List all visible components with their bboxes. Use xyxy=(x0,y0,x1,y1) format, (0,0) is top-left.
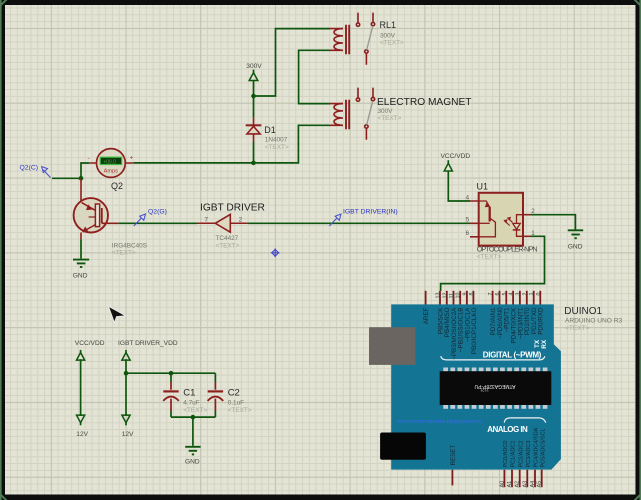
wire rail to ground xyxy=(192,417,194,446)
wire optocoupler pin2 to ground xyxy=(531,215,576,230)
label Q2(C) wire xyxy=(20,164,51,177)
arduino pin labels bottom xyxy=(450,427,547,467)
ground right of optocoupler xyxy=(568,230,583,238)
capacitor C1 4.7uF xyxy=(163,382,179,411)
relay RL1 xyxy=(330,13,375,65)
arduino power jack xyxy=(380,433,426,460)
svg-text:D1: D1 xyxy=(264,125,276,135)
wire D1 bottom to rail xyxy=(253,142,255,163)
svg-text:RX: RX xyxy=(541,339,548,349)
svg-text:<TEXT>: <TEXT> xyxy=(228,407,252,414)
diode D1 1N4007 xyxy=(246,118,262,142)
wire RL1 coil bottom to EM coil top xyxy=(299,50,330,103)
wire IGBT emitter to ground xyxy=(80,239,82,258)
svg-text:7: 7 xyxy=(205,216,209,223)
svg-text:8: 8 xyxy=(469,293,475,296)
svg-text:RESET: RESET xyxy=(450,445,457,466)
svg-text:<TEXT>: <TEXT> xyxy=(378,115,402,122)
svg-text:1: 1 xyxy=(531,230,535,237)
svg-text:Q2: Q2 xyxy=(111,181,123,191)
svg-text:TC4427: TC4427 xyxy=(216,235,239,242)
svg-text:ELECTRO MAGNET: ELECTRO MAGNET xyxy=(377,97,472,108)
svg-text:microcontrolandos.blogspot.com: microcontrolandos.blogspot.com xyxy=(398,419,482,425)
svg-text:A0: A0 xyxy=(499,481,505,488)
svg-text:4.7uF: 4.7uF xyxy=(183,400,199,407)
svg-text:2: 2 xyxy=(239,216,243,223)
arduino pin labels top xyxy=(423,307,548,360)
svg-text:OPTOCOUPLER-NPN: OPTOCOUPLER-NPN xyxy=(477,244,538,253)
svg-text:IGBT DRIVER_VDD: IGBT DRIVER_VDD xyxy=(118,340,178,347)
wire ammeter left to node xyxy=(52,163,89,178)
label Q2(G) wire xyxy=(134,209,167,226)
svg-text:A4: A4 xyxy=(530,481,536,488)
arduino board body xyxy=(391,304,561,469)
junction node cap bottom rail xyxy=(191,415,196,420)
junction node Q2 collector xyxy=(79,176,84,181)
svg-text:Amps: Amps xyxy=(104,169,119,175)
transistor IGBT IRG4BC40S xyxy=(74,179,119,240)
junction node VDD arrow xyxy=(124,371,129,376)
svg-text:<TEXT>: <TEXT> xyxy=(380,40,404,47)
svg-text:9: 9 xyxy=(462,293,468,296)
junction node D1 top xyxy=(251,94,256,99)
power arrow VCC/VDD 12V left xyxy=(77,350,85,425)
svg-text:10: 10 xyxy=(456,293,462,299)
svg-text:1121: 1121 xyxy=(479,388,489,393)
svg-text:<TEXT>: <TEXT> xyxy=(216,242,240,249)
svg-text:Q2(G): Q2(G) xyxy=(148,209,167,216)
wire C2 bottom xyxy=(214,411,216,418)
svg-text:C2: C2 xyxy=(228,387,240,398)
svg-text:C1: C1 xyxy=(183,387,195,398)
wire VDD rail to capacitors xyxy=(126,372,215,374)
wire IGBT gate to driver xyxy=(118,222,197,224)
svg-text:2: 2 xyxy=(531,208,535,215)
capacitor C2 0.1uF xyxy=(208,382,224,411)
svg-text:U1: U1 xyxy=(477,182,489,192)
svg-text:DIGITAL (~PWM): DIGITAL (~PWM) xyxy=(483,350,542,359)
svg-text:<TEXT>: <TEXT> xyxy=(265,144,289,151)
svg-text:+: + xyxy=(130,155,134,161)
svg-text:5: 5 xyxy=(466,217,470,224)
svg-text:ARDUINO UNO R3: ARDUINO UNO R3 xyxy=(565,318,622,325)
junction node C1 top xyxy=(169,371,174,376)
optocoupler U1 xyxy=(470,193,531,246)
svg-text:RL1: RL1 xyxy=(380,20,397,30)
svg-text:PB0/ICP1/CLKO: PB0/ICP1/CLKO xyxy=(471,307,478,354)
arduino bottom pin stubs xyxy=(452,470,541,488)
svg-text:GND: GND xyxy=(568,243,583,250)
relay ELECTRO MAGNET xyxy=(330,88,375,140)
arduino IC ATMEGA328P-PU xyxy=(440,368,552,409)
svg-text:1N4007: 1N4007 xyxy=(265,137,288,144)
label IGBT DRIVER(IN) wire xyxy=(329,209,397,226)
svg-text:PC0/ADC0: PC0/ADC0 xyxy=(503,441,509,468)
wire C1 top stub xyxy=(170,373,172,382)
arduino silkscreen digital bracket xyxy=(441,356,545,360)
svg-text:12: 12 xyxy=(442,293,448,299)
wire VCC/VDD to optocoupler pin4 xyxy=(448,171,470,201)
svg-text:PC3/ADC3: PC3/ADC3 xyxy=(526,441,532,468)
svg-text:7: 7 xyxy=(488,293,494,296)
ammeter Q2 xyxy=(88,149,134,178)
svg-text:4: 4 xyxy=(509,293,515,296)
svg-text:VCC/VDD: VCC/VDD xyxy=(441,153,471,160)
wire C2 top stub xyxy=(214,373,216,382)
wire capacitor bottom rail xyxy=(171,416,215,418)
svg-text:Q2(C): Q2(C) xyxy=(20,164,39,171)
svg-text:ANALOG IN: ANALOG IN xyxy=(487,425,528,434)
svg-text:A2: A2 xyxy=(515,481,521,488)
svg-text:6: 6 xyxy=(495,293,501,296)
wire optocoupler pin1 to arduino pin13 xyxy=(441,236,545,291)
wire driver output to optocoupler pin5 xyxy=(248,222,470,224)
svg-text:AREF: AREF xyxy=(423,307,430,324)
svg-text:PC1/ADC1: PC1/ADC1 xyxy=(511,441,517,468)
svg-text:6: 6 xyxy=(466,230,470,237)
svg-text:GND: GND xyxy=(73,272,88,279)
wire 300V stem down to D1 xyxy=(253,81,255,118)
power arrow IGBT DRIVER_VDD 12V xyxy=(122,350,130,425)
origin marker xyxy=(271,248,280,257)
svg-text:300V: 300V xyxy=(246,63,262,70)
svg-text:A1: A1 xyxy=(507,481,513,488)
svg-text:A3: A3 xyxy=(522,481,528,488)
svg-text:VCC/VDD: VCC/VDD xyxy=(75,340,105,347)
svg-text:<TEXT>: <TEXT> xyxy=(112,249,136,256)
svg-text:4: 4 xyxy=(466,194,470,201)
svg-text:0: 0 xyxy=(536,293,542,296)
svg-text:5: 5 xyxy=(502,293,508,296)
svg-text:PC2/ADC2: PC2/ADC2 xyxy=(518,441,524,468)
svg-text:300V: 300V xyxy=(380,33,396,40)
power VCC/VDD symbol top xyxy=(444,160,452,171)
svg-text:1: 1 xyxy=(529,293,535,296)
svg-text:2: 2 xyxy=(522,293,528,296)
wire junction to RL1 coil top xyxy=(254,29,331,96)
svg-text:<TEXT>: <TEXT> xyxy=(565,325,590,332)
svg-text:PD0/RXD: PD0/RXD xyxy=(538,307,545,335)
arduino pin numbers top xyxy=(436,293,542,299)
svg-text:PC5/ADC5/SCL: PC5/ADC5/SCL xyxy=(540,428,546,467)
ground below capacitors xyxy=(185,447,200,455)
svg-text:12V: 12V xyxy=(76,431,88,438)
wire C1 bottom xyxy=(170,411,172,418)
arduino usb connector xyxy=(369,327,415,365)
svg-text:12V: 12V xyxy=(122,431,134,438)
svg-text:DUINO1: DUINO1 xyxy=(564,306,602,317)
svg-text:13: 13 xyxy=(436,293,442,299)
svg-text:3: 3 xyxy=(515,293,521,296)
mouse cursor xyxy=(108,306,125,322)
svg-text:IGBT DRIVER: IGBT DRIVER xyxy=(200,203,265,214)
svg-text:11: 11 xyxy=(449,293,455,299)
svg-text:IRG4BC40S: IRG4BC40S xyxy=(112,242,147,249)
arduino silkscreen analog bracket xyxy=(504,418,546,423)
svg-text:<TEXT>: <TEXT> xyxy=(183,407,207,414)
svg-text:+00.0: +00.0 xyxy=(103,159,116,165)
ground below IGBT xyxy=(73,260,89,267)
junction node D1 bottom rail xyxy=(251,161,256,166)
svg-text:A5: A5 xyxy=(537,481,543,488)
svg-text:IGBT DRIVER(IN): IGBT DRIVER(IN) xyxy=(343,209,398,216)
svg-text:300V: 300V xyxy=(378,108,394,115)
svg-text:-: - xyxy=(88,155,90,162)
svg-text:PC4/ADC4/SDA: PC4/ADC4/SDA xyxy=(534,427,540,467)
svg-text:<TEXT>: <TEXT> xyxy=(477,253,502,260)
buffer U? TC4427 igbt driver xyxy=(197,214,248,232)
arduino DUINO1 top pin stubs xyxy=(426,291,541,305)
arduino pin numbers bottom A0-A5 xyxy=(499,481,542,488)
power 300V symbol xyxy=(249,70,258,81)
svg-text:0.1uF: 0.1uF xyxy=(228,400,244,407)
wire EM coil bottom down to main rail xyxy=(134,125,330,163)
svg-text:GND: GND xyxy=(185,458,200,465)
